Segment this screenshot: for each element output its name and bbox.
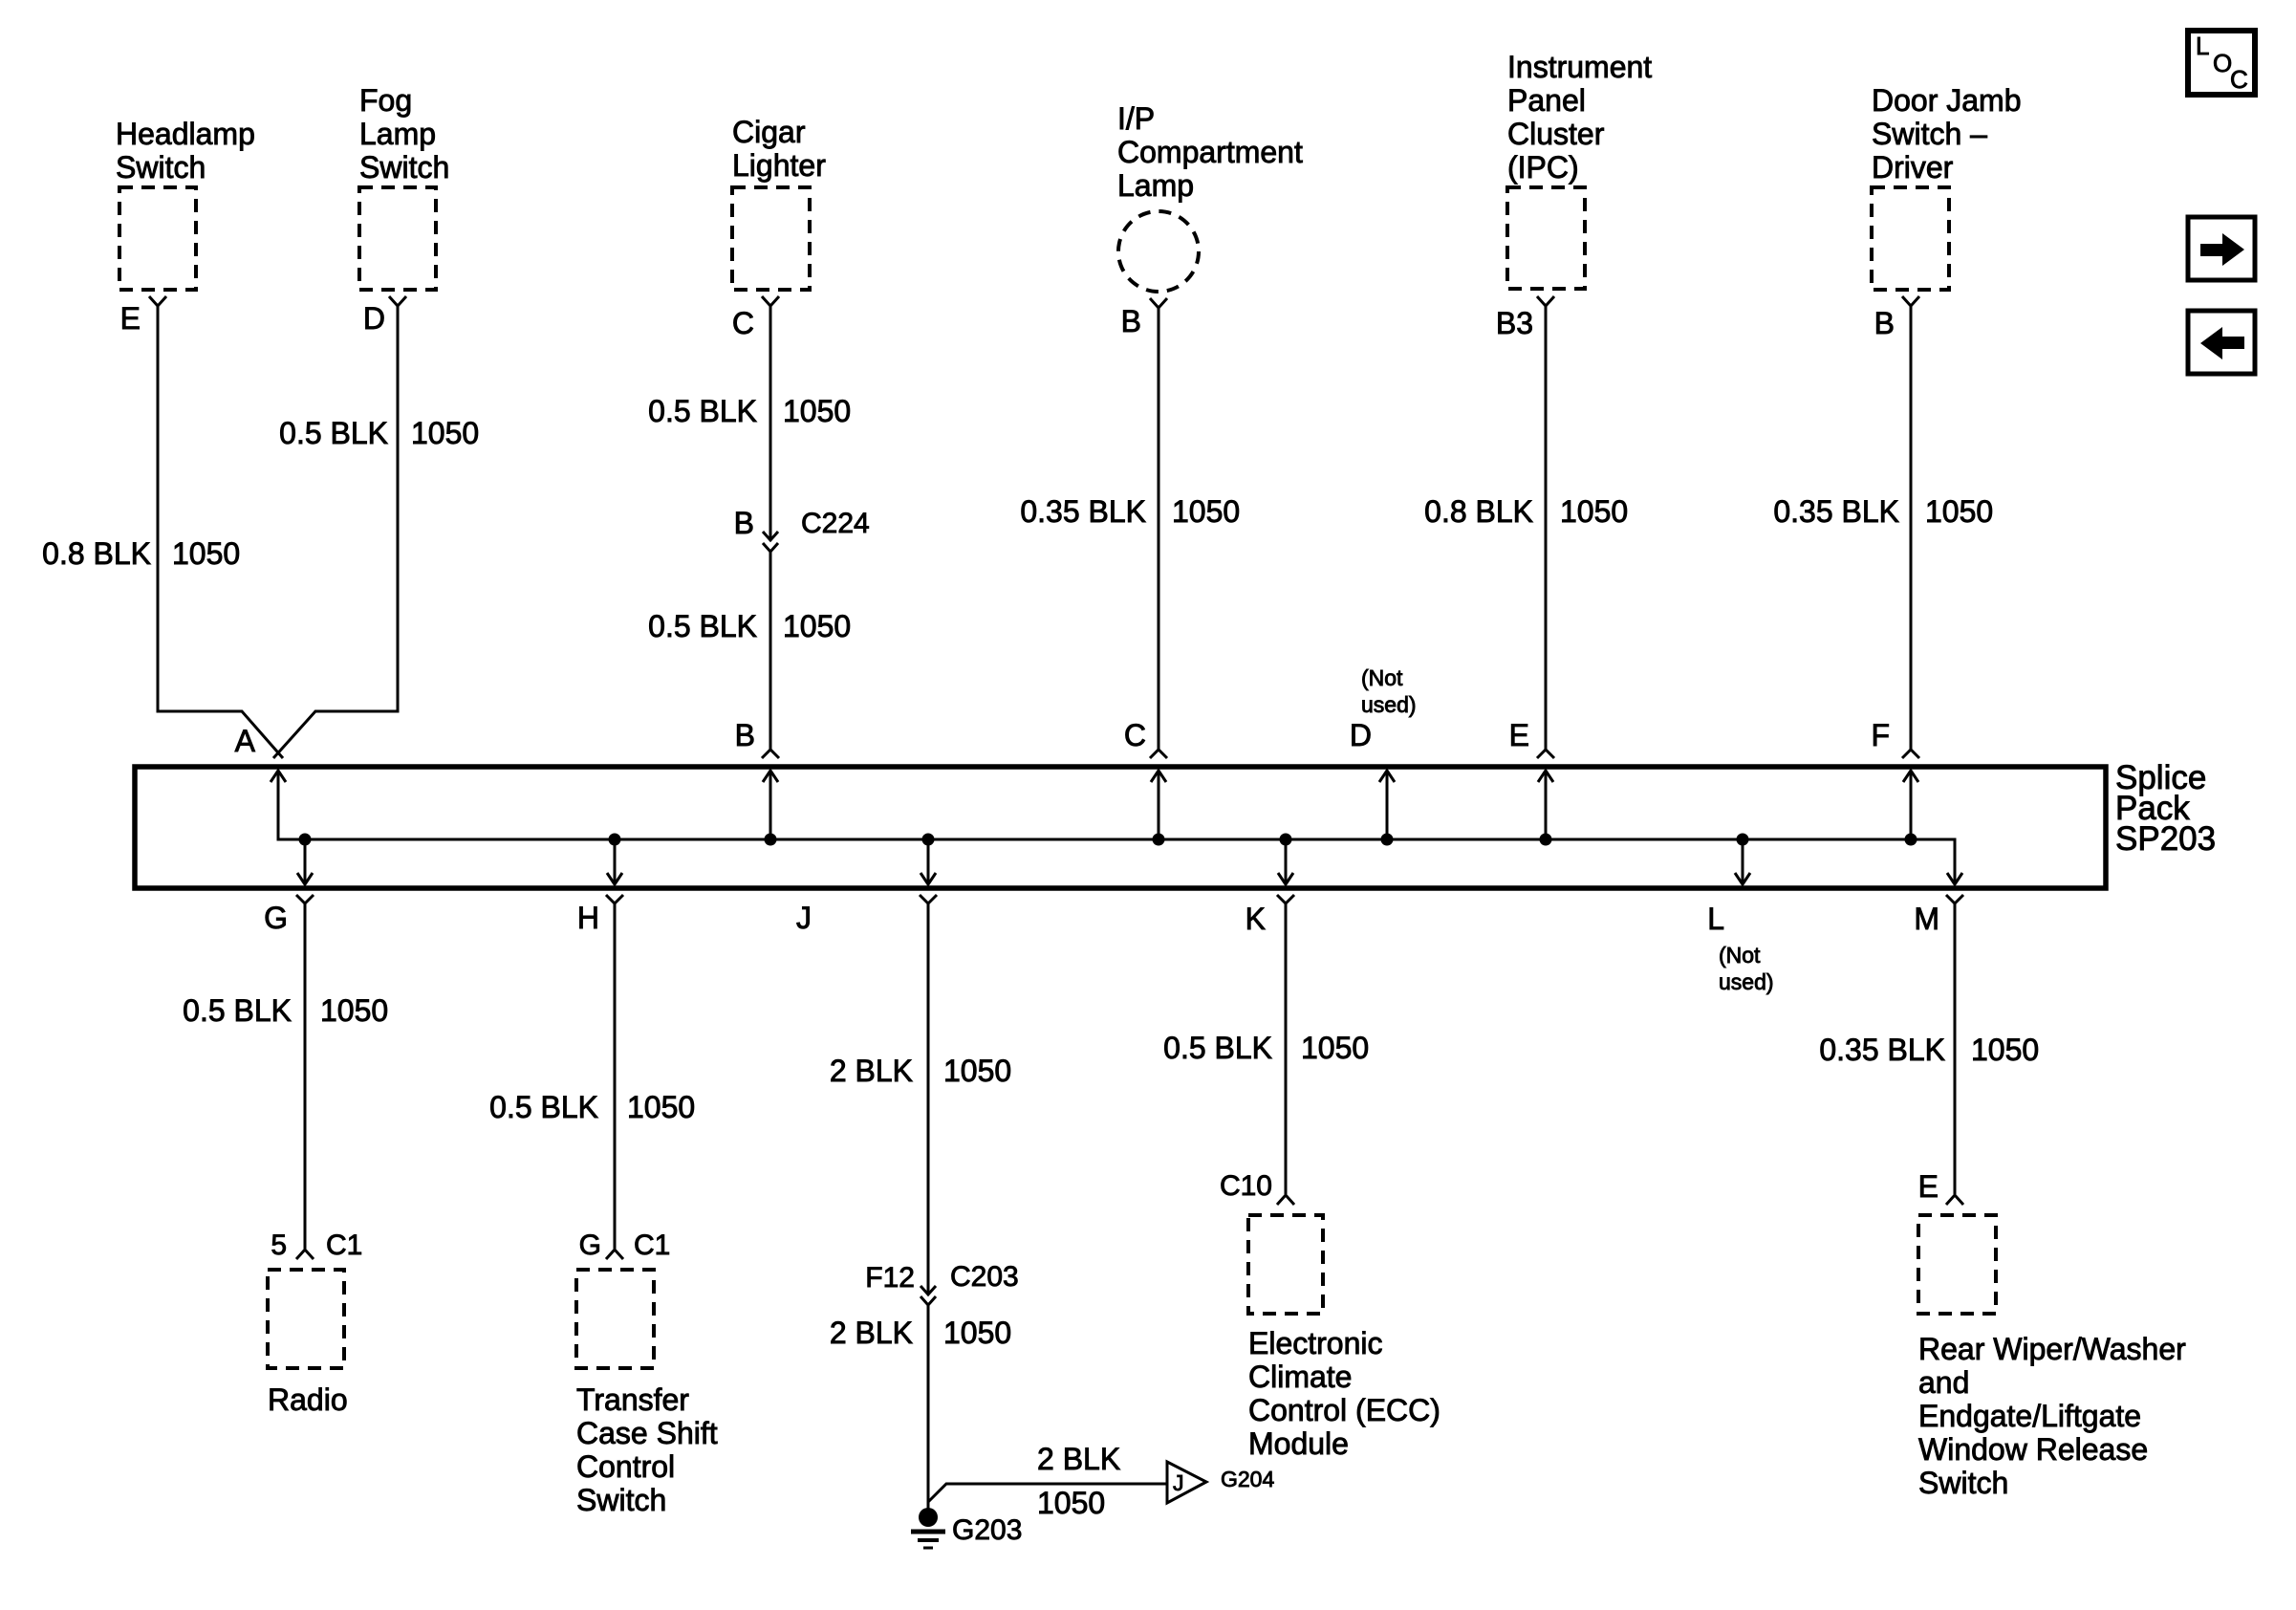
svg-text:E: E — [120, 301, 141, 336]
svg-text:1050: 1050 — [320, 993, 388, 1028]
splice arrow down H — [607, 839, 622, 884]
splice arrow down K — [1278, 839, 1293, 884]
svg-text:(Not: (Not — [1361, 665, 1403, 690]
svg-text:1050: 1050 — [1971, 1033, 2039, 1067]
svg-text:Rear Wiper/Washer: Rear Wiper/Washer — [1918, 1332, 2186, 1366]
wire label 0.5 BLK 1050 fog lamp — [279, 416, 479, 450]
svg-text:A: A — [235, 724, 256, 758]
svg-text:B: B — [1874, 306, 1895, 340]
svg-text:C: C — [2230, 65, 2248, 94]
connector fork pin B door jamb — [1902, 296, 1919, 306]
off-page triangle to G204 — [1167, 1462, 1206, 1503]
svg-text:B: B — [735, 718, 755, 752]
svg-text:1050: 1050 — [1925, 494, 1993, 529]
svg-text:C1: C1 — [634, 1229, 670, 1261]
svg-text:M: M — [1914, 902, 1939, 936]
svg-text:Door Jamb: Door Jamb — [1872, 83, 2022, 118]
svg-text:1050: 1050 — [627, 1090, 695, 1124]
cigar lighter label — [732, 115, 826, 183]
right arrow legend box — [2188, 217, 2255, 280]
svg-text:I/P: I/P — [1117, 101, 1155, 136]
wire C cigar lighter lower — [769, 552, 772, 751]
svg-text:1050: 1050 — [783, 609, 851, 643]
svg-text:Instrument: Instrument — [1507, 50, 1652, 84]
splice bottom fork H — [606, 895, 623, 903]
svg-text:C: C — [1124, 718, 1146, 752]
svg-text:0.35 BLK: 0.35 BLK — [1773, 494, 1899, 529]
svg-text:2 BLK: 2 BLK — [830, 1316, 913, 1350]
splice junction dot D — [1381, 834, 1394, 846]
wire label 0.5 BLK 1050 ECC — [1163, 1031, 1369, 1065]
svg-text:D: D — [1350, 718, 1372, 752]
I/P compartment lamp circle — [1118, 211, 1199, 292]
svg-text:J: J — [796, 901, 812, 935]
svg-text:Control (ECC): Control (ECC) — [1248, 1393, 1440, 1427]
ECC module label — [1248, 1326, 1440, 1461]
svg-text:Lighter: Lighter — [732, 148, 826, 183]
svg-text:J: J — [1173, 1470, 1184, 1495]
svg-text:0.5 BLK: 0.5 BLK — [648, 609, 757, 643]
svg-text:2 BLK: 2 BLK — [1037, 1442, 1120, 1476]
splice bottom fork K — [1277, 895, 1294, 903]
svg-text:Case Shift: Case Shift — [576, 1416, 718, 1450]
splice internal bus — [278, 771, 1955, 884]
connector fork pin D fog lamp — [389, 296, 406, 306]
splice arrow up E — [1538, 771, 1553, 839]
left arrow legend box — [2188, 311, 2255, 374]
connector C203 — [921, 1286, 936, 1305]
splice pack label — [2115, 759, 2216, 858]
connector C224 labels — [734, 506, 870, 540]
transfer case label — [576, 1382, 718, 1517]
svg-text:0.8 BLK: 0.8 BLK — [1424, 494, 1533, 529]
wire label 0.35 BLK 1050 rear wiper — [1819, 1033, 2039, 1067]
svg-text:1050: 1050 — [1301, 1031, 1369, 1065]
branch label 2 BLK 1050 — [1037, 1442, 1120, 1520]
svg-text:Lamp: Lamp — [359, 117, 436, 151]
radio pin labels 5 C1 — [271, 1229, 362, 1261]
wire B lamp to splice C — [1158, 308, 1160, 751]
svg-text:Module: Module — [1248, 1426, 1349, 1461]
wire C cigar lighter upper — [769, 306, 772, 540]
transfer pin labels G C1 — [579, 1229, 671, 1261]
svg-text:Panel: Panel — [1507, 83, 1586, 118]
fog lamp switch box — [359, 187, 436, 290]
rear wiper label — [1918, 1332, 2186, 1500]
radio connector fork — [296, 1250, 314, 1259]
splice arrow down G — [297, 839, 313, 884]
splice arrow down L — [1735, 839, 1750, 884]
instrument panel cluster box — [1507, 187, 1585, 289]
wire K to ECC — [1285, 903, 1288, 1194]
svg-text:(Not: (Not — [1719, 943, 1761, 968]
svg-text:C: C — [732, 306, 754, 340]
svg-text:Fog: Fog — [359, 83, 412, 118]
ECC module box — [1248, 1215, 1323, 1314]
door jamb switch label — [1872, 83, 2022, 185]
connector fork pin E headlamp — [149, 296, 166, 306]
splice junction dot J — [922, 834, 935, 846]
svg-text:2 BLK: 2 BLK — [830, 1054, 913, 1088]
radio box — [268, 1270, 344, 1368]
svg-text:1050: 1050 — [1560, 494, 1628, 529]
splice bottom fork J — [920, 895, 937, 903]
wire label 0.8 BLK 1050 IPC — [1424, 494, 1628, 529]
splice arrow up D — [1379, 771, 1395, 839]
wire label 2 BLK 1050 J lower — [830, 1316, 1011, 1350]
svg-text:0.35 BLK: 0.35 BLK — [1819, 1033, 1945, 1067]
wire label 0.5 BLK 1050 cigar upper — [648, 394, 851, 428]
svg-text:Window Release: Window Release — [1918, 1432, 2148, 1467]
svg-text:Radio: Radio — [268, 1382, 348, 1417]
svg-text:Climate: Climate — [1248, 1360, 1352, 1394]
svg-text:Switch –: Switch – — [1872, 117, 1987, 151]
splice top fork E — [1537, 750, 1554, 758]
rear wiper connector fork — [1946, 1195, 1963, 1205]
wire label 0.35 BLK 1050 door jamb — [1773, 494, 1993, 529]
svg-text:E: E — [1918, 1169, 1939, 1204]
svg-text:and: and — [1918, 1365, 1969, 1400]
headlamp switch box — [119, 187, 196, 290]
svg-text:0.5 BLK: 0.5 BLK — [648, 394, 757, 428]
splice junction dot E — [1540, 834, 1552, 846]
svg-text:1050: 1050 — [411, 416, 479, 450]
wire E headlamp to splice A — [158, 306, 283, 758]
svg-text:G203: G203 — [952, 1514, 1022, 1546]
wire B door jamb to splice F — [1910, 306, 1913, 751]
svg-text:1050: 1050 — [1172, 494, 1240, 529]
wire label 2 BLK 1050 J upper — [830, 1054, 1011, 1088]
wire D fog lamp to splice A — [273, 306, 398, 758]
ground G203 — [911, 1508, 945, 1548]
wire B3 IPC to splice E — [1545, 306, 1548, 751]
svg-text:F: F — [1871, 718, 1890, 752]
svg-text:Switch: Switch — [116, 150, 206, 185]
svg-text:G204: G204 — [1221, 1467, 1274, 1491]
cigar lighter box — [732, 187, 810, 290]
svg-text:Headlamp: Headlamp — [116, 117, 255, 151]
splice arrow up F — [1903, 771, 1918, 839]
wire M to rear wiper switch — [1954, 903, 1957, 1194]
connector fork pin B lamp — [1150, 298, 1167, 308]
wire label 0.35 BLK 1050 lamp — [1020, 494, 1240, 529]
svg-text:B: B — [734, 506, 754, 540]
splice junction dot G — [299, 834, 312, 846]
rear wiper box — [1918, 1215, 1996, 1314]
svg-text:1050: 1050 — [783, 394, 851, 428]
svg-text:Switch: Switch — [576, 1483, 666, 1517]
svg-text:1050: 1050 — [1037, 1486, 1105, 1520]
svg-text:0.35 BLK: 0.35 BLK — [1020, 494, 1146, 529]
wire branch to G204 — [928, 1484, 1166, 1502]
svg-text:1050: 1050 — [943, 1054, 1011, 1088]
svg-text:(IPC): (IPC) — [1507, 150, 1579, 185]
splice arrow up A — [271, 771, 286, 782]
svg-text:0.5 BLK: 0.5 BLK — [183, 993, 292, 1028]
svg-text:Control: Control — [576, 1449, 675, 1484]
svg-text:C10: C10 — [1220, 1170, 1272, 1202]
splice arrow down J — [921, 839, 936, 884]
svg-text:5: 5 — [271, 1229, 287, 1261]
ECC connector fork — [1277, 1195, 1294, 1205]
splice bottom fork G — [296, 895, 314, 903]
svg-text:Endgate/Liftgate: Endgate/Liftgate — [1918, 1399, 2141, 1433]
svg-text:E: E — [1509, 718, 1529, 752]
connector fork pin C cigar lighter — [762, 296, 779, 306]
splice junction dot B — [765, 834, 777, 846]
svg-text:Driver: Driver — [1872, 150, 1954, 185]
splice top fork C — [1150, 750, 1167, 758]
svg-text:0.5 BLK: 0.5 BLK — [279, 416, 388, 450]
connector fork pin B3 IPC — [1537, 296, 1554, 306]
door jamb switch box — [1872, 187, 1949, 290]
svg-text:used): used) — [1361, 692, 1417, 717]
svg-text:L: L — [1707, 902, 1724, 936]
splice top fork F — [1902, 750, 1919, 758]
svg-text:Electronic: Electronic — [1248, 1326, 1383, 1360]
not used label D — [1361, 665, 1417, 717]
headlamp switch label — [116, 117, 255, 185]
splice arrow up C — [1151, 771, 1166, 839]
svg-text:0.8 BLK: 0.8 BLK — [42, 536, 151, 571]
svg-text:B3: B3 — [1496, 306, 1533, 340]
splice bottom fork M — [1946, 895, 1963, 903]
splice pack SP203 box — [135, 767, 2106, 888]
I/P compartment lamp label — [1117, 101, 1303, 203]
svg-text:0.5 BLK: 0.5 BLK — [489, 1090, 598, 1124]
LOC legend box — [2188, 31, 2255, 95]
splice junction dot K — [1280, 834, 1292, 846]
svg-text:B: B — [1121, 304, 1141, 338]
splice arrow up B — [763, 771, 778, 839]
svg-text:Lamp: Lamp — [1117, 168, 1194, 203]
wire H to transfer case switch — [614, 903, 617, 1249]
svg-text:used): used) — [1719, 969, 1774, 994]
wire label 0.5 BLK 1050 cigar lower — [648, 609, 851, 643]
wire J upper to C203 — [927, 903, 930, 1295]
splice junction dot H — [609, 834, 621, 846]
wire J lower to ground — [927, 1305, 930, 1513]
svg-text:C224: C224 — [801, 508, 870, 539]
svg-text:1050: 1050 — [943, 1316, 1011, 1350]
svg-text:F12: F12 — [865, 1262, 915, 1294]
connector C224 — [763, 532, 778, 552]
svg-text:C1: C1 — [326, 1229, 362, 1261]
svg-text:G: G — [579, 1229, 601, 1261]
wire label 0.8 BLK 1050 headlamp — [42, 536, 240, 571]
wire label 0.5 BLK 1050 radio — [183, 993, 388, 1028]
svg-text:K: K — [1245, 902, 1266, 936]
splice arrow down M — [1947, 873, 1962, 884]
transfer connector fork — [606, 1250, 623, 1259]
svg-text:Switch: Switch — [359, 150, 449, 185]
not used label L — [1719, 943, 1774, 994]
transfer case box — [576, 1270, 654, 1368]
svg-text:H: H — [577, 901, 599, 935]
splice junction dot F — [1905, 834, 1917, 846]
svg-text:SP203: SP203 — [2115, 820, 2216, 858]
svg-text:G: G — [264, 901, 288, 935]
splice junction dot C — [1153, 834, 1165, 846]
instrument panel cluster label — [1507, 50, 1652, 185]
svg-text:L: L — [2196, 32, 2209, 60]
svg-text:D: D — [363, 301, 385, 336]
splice top fork B — [762, 750, 779, 758]
svg-text:Cigar: Cigar — [732, 115, 806, 149]
splice junction dot L — [1737, 834, 1749, 846]
wire label 0.5 BLK 1050 transfer — [489, 1090, 695, 1124]
svg-text:Cluster: Cluster — [1507, 117, 1605, 151]
svg-text:0.5 BLK: 0.5 BLK — [1163, 1031, 1272, 1065]
svg-text:C203: C203 — [950, 1261, 1019, 1293]
svg-text:Transfer: Transfer — [576, 1382, 689, 1417]
fog lamp switch label — [359, 83, 449, 185]
wire G to radio — [304, 903, 307, 1249]
svg-text:Compartment: Compartment — [1117, 135, 1303, 169]
svg-text:1050: 1050 — [172, 536, 240, 571]
svg-text:Switch: Switch — [1918, 1466, 2008, 1500]
connector C203 labels — [865, 1261, 1018, 1294]
